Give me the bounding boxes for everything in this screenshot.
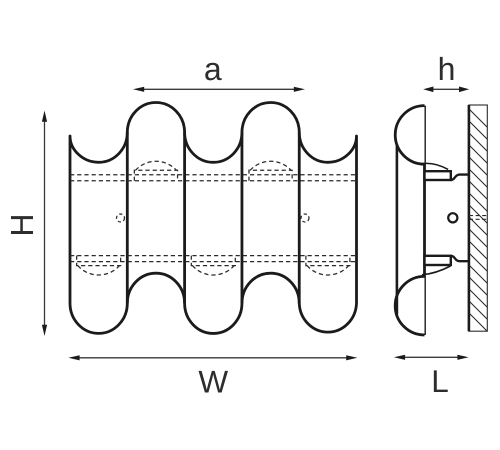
svg-text:h: h [438,51,456,87]
dashed mounting hole right [301,214,309,222]
dimension W line [78,357,348,359]
dimension H line [44,120,46,327]
dashed lamp holder cap tube4 [249,161,292,181]
side view top bulge semicircle [395,106,424,165]
inner vertical edge line 4 [298,132,301,303]
svg-text:H: H [4,213,40,236]
dimension h line [431,88,462,90]
hidden dashed line top 2 [70,180,357,182]
side view glass right edge [423,106,426,335]
wall hatched strip [460,100,500,344]
hidden dashed line top 1 [70,174,357,176]
hidden dashed line bottom 2 [70,261,357,263]
bottom bracket rect [425,256,451,265]
top bracket s-curve to wall [451,175,469,180]
dimension a line [143,88,295,90]
svg-text:W: W [198,364,228,400]
dashed lamp holder cap tube2 [134,161,177,181]
bottom bracket dome [422,266,451,275]
side view back slab edge [396,145,399,315]
inner vertical edge line 3 [241,132,244,303]
top bracket dome [422,163,449,169]
dashed lamp holder cup tube5 [306,256,350,275]
front view outline [70,103,357,334]
dimension L line [403,356,459,358]
dashed lamp holder cup tube3 [191,256,235,275]
side view bottom bulge semicircle [395,276,424,335]
screw head circle [448,213,457,222]
dashed screw shaft in wall [469,215,488,217]
inner vertical edge line 1 [126,132,129,303]
svg-text:L: L [431,363,449,399]
inner vertical edge line 2 [183,132,186,303]
bottom bracket s-curve to wall [451,256,469,261]
dashed mounting hole left [117,214,125,222]
top bracket rect [425,171,451,180]
hidden dashed line bottom 1 [70,255,357,257]
svg-text:a: a [204,51,222,87]
dashed lamp holder cup tube1 [77,256,121,275]
